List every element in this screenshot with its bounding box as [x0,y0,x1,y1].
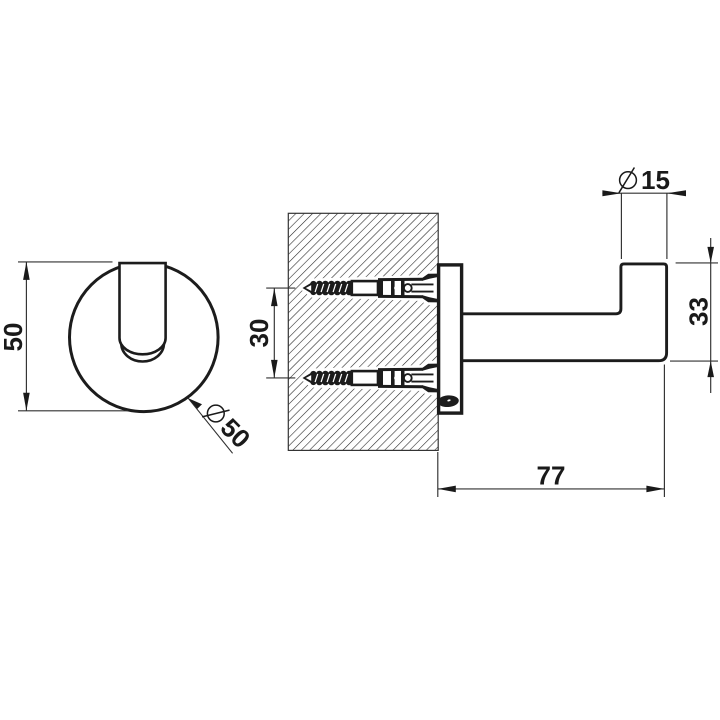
dimension lines group [18,193,718,497]
dim 50 arrow down [23,393,30,411]
dim 30 arrow up [271,288,278,306]
grub screw head [437,395,459,408]
diameter 50 label (rotated along leader) [199,397,256,454]
dim 15 arrow left [602,190,621,196]
dim 15 extension line right [666,193,668,259]
dim 33 dimension line [710,238,712,393]
dim 30 extension line top [266,287,295,289]
wall plug bore channel [411,283,433,285]
dim 30 dimension line [273,288,275,378]
dim 50 arrow up [23,262,30,280]
screw shank [352,281,378,295]
hook arm profile (side view) [462,264,666,361]
dim 30 extension line bottom [266,377,295,379]
dim 33 arrow top [707,247,714,263]
svg-text:50: 50 [0,323,28,352]
hatch clearance halo [299,271,438,306]
dim 50 extension line top [18,261,113,263]
svg-text:30: 30 [244,319,274,348]
dim 15 dimension line [602,192,686,194]
leader arrow dia 50 [188,398,202,409]
dim 33 extension line top [676,262,718,264]
leader line dia 50 [188,398,232,453]
hook tube face (front view) [120,263,166,354]
screw and wall plug assembly 1 (upper) [299,271,438,306]
hook tube bend arc (front view) [121,344,164,362]
dim 15 arrow right [667,190,686,196]
dim 77 arrow left [438,486,456,493]
wall plug expansion eye [404,284,412,292]
screw thread crests [310,281,352,296]
screw and wall plug assembly 2 (lower) [299,361,438,396]
wall plug end cap [378,279,383,297]
wall plug expansion rib 2 [401,280,405,297]
wall plug body walls [378,278,423,282]
dim 33 extension line bottom [670,360,718,362]
wall plug expansion rib 1 [391,280,395,296]
dim 50 dimension line [25,262,27,411]
arrowheads group [23,190,714,492]
dim 33 arrow bottom [707,361,714,377]
dim 77 dimension line [438,488,665,490]
wall plug collar funnel [423,274,438,281]
diameter symbol for 15 [619,168,636,193]
thread flank highlights [315,284,348,292]
svg-text:15: 15 [641,165,670,195]
mounting plate (side view) [439,265,462,413]
rosette circle (front view) [70,263,219,412]
dim 50 extension line bottom [18,410,128,412]
dim 77 extension line left [437,452,439,497]
svg-text:33: 33 [684,297,714,326]
screw tip [303,282,313,294]
dim 77 extension line right [663,365,665,498]
svg-text:77: 77 [537,461,566,491]
dim 15 extension line left [620,193,622,259]
dimension value labels [0,165,714,491]
dim 30 arrow down [271,360,278,378]
screw thread core [311,284,352,293]
svg-text:50: 50 [215,412,257,454]
dim 77 arrow right [646,486,664,493]
wall section (hatched) [288,213,438,450]
